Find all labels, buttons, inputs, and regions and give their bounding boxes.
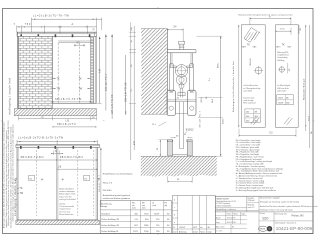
floor slab band upper [15,109,97,116]
svg-text:(mm): (mm) [142,208,146,210]
suspension bolt [178,41,184,49]
glass strip 1 outline [241,25,265,128]
svg-text:126/07: 126/07 [278,97,284,99]
glass strip 1 left dim line [238,25,239,128]
svg-text:Rückansicht / flush pull: Rückansicht / flush pull [303,78,306,100]
hole symbol strip 1 [254,66,263,75]
sill hatch band lower [16,220,100,224]
svg-text:S = Bohrung Übergangsgriff /: S = Bohrung Übergangsgriff / bore hole h… [236,189,277,192]
svg-text:GEZE GmbH: GEZE GmbH [216,198,229,200]
svg-text:Bohrungen für Drehflansche / h: Bohrungen für Drehflansche / handle bar [232,61,235,112]
svg-text:Ausführung: Ausführung [101,202,111,205]
svg-text:864 +: 864 + [218,62,220,68]
logo oval [258,226,267,231]
svg-text:Standard: Standard [101,212,109,215]
svg-text:Name: Name [200,231,205,233]
TK dim strip 2 [276,44,292,47]
svg-text:Perlan 140: Perlan 140 [292,215,305,218]
note text 2 strip 2 [277,84,290,92]
svg-text:and right self shifted: and right self shifted [59,198,76,201]
track rail lower elevation [16,145,100,148]
section wall hatch [141,29,167,115]
svg-text:mit Drehflanschen: mit Drehflanschen [243,84,258,87]
svg-text:TÜ: TÜ [41,116,44,119]
legend list [236,139,283,192]
dim 165 strip 2 [276,28,292,35]
svg-text:Empfehlung / recommendation: Empfehlung / recommendation [103,173,134,176]
svg-text:nach Wahl: nach Wahl [243,90,252,92]
svg-text:Änderung: Änderung [179,230,186,233]
svg-text:Datum: Datum [193,230,199,233]
label einfluegelig single leaf [8,78,12,115]
brick wall [17,32,52,108]
dim text LL upper [33,14,69,17]
right jamb upper [95,36,96,103]
svg-text:1 v. / of 1: 1 v. / of 1 [216,231,223,233]
section right dim column [197,36,225,156]
svg-text:(mm): (mm) [153,205,157,207]
svg-text:b: b [174,214,175,216]
svg-text:Hmax ≤ 5: Hmax ≤ 5 [103,181,113,184]
svg-text:Türschienenmaße: Türschienenmaße [59,205,74,208]
drawing number cell [275,222,313,231]
date name grid [215,210,247,233]
glass symbol strip 2 [284,117,292,125]
svg-text:Gepr.: Gepr. [216,222,220,224]
svg-text:Außen Glasfläche: Außen Glasfläche [59,188,74,191]
svg-text:TK: TK [282,44,285,46]
track fixing bolts upper [20,34,90,37]
note text strip 2 [277,51,289,62]
svg-text:34: 34 [173,27,177,29]
svg-text:Bohrung Ø26: Bohrung Ø26 [277,51,288,54]
company cell [216,198,236,211]
dim LB lower [57,166,97,169]
svg-text:2768-mK: 2768-mK [248,200,256,202]
revision table [172,196,215,234]
handle bar label rotated [232,61,235,112]
svg-text:04.21: 04.21 [193,227,197,229]
svg-text:(mm): (mm) [132,208,136,210]
svg-text:904.5: 904.5 [223,118,225,124]
TK dim strip 1 [241,44,256,47]
svg-text:1245-22: 1245-22 [179,227,185,229]
dim 30 clamp glass [177,97,180,99]
hanger bolt and nut [178,88,185,97]
svg-text:53: 53 [269,133,273,135]
note text strip 1 [243,84,260,92]
hole symbol strip 2 [278,66,285,73]
svg-text:Wz: Wz [208,227,211,229]
svg-text:Zust: Zust [173,230,177,233]
dim line SH upper [105,34,108,110]
right dim lines glass strips [303,25,313,148]
svg-text:pull handle: pull handle [277,90,286,92]
dim SB left half [21,156,45,159]
svg-text:SB=LB/2-TÜ-B/2: SB=LB/2-TÜ-B/2 [60,156,84,159]
dim row TU LB TU [18,116,105,123]
hole dia label strip 1 [250,58,252,66]
svg-text:Hu: Hu [234,218,236,220]
svg-text:15.03.21: 15.03.21 [227,218,233,220]
TU box left lower [15,176,35,181]
glass preparation header [238,13,293,16]
svg-text:Ø26-36: Ø26-36 [250,58,252,66]
svg-text:Kantenschutz: Kantenschutz [243,96,254,99]
dim SB inside opening [52,98,91,102]
hole table strip 2 [277,95,294,105]
svg-text:c: c [174,207,175,209]
svg-text:126/08: 126/08 [278,102,284,104]
svg-text:end-to-end bottom guidance: end-to-end bottom guidance [103,197,131,200]
svg-text:8/10/12: 8/10/12 [186,130,194,132]
svg-text:430: 430 [246,120,249,122]
dim 53 below strips [239,129,296,137]
section left dim column [129,23,136,161]
dim SB right half [17,156,97,160]
svg-text:entsprechend: entsprechend [59,208,70,211]
dim line GH upper [111,34,114,119]
floor hatch band [141,156,217,176]
svg-text:SB=LB-2xTÜ: SB=LB-2xTÜ [57,123,76,126]
corner cutout hatch strip 1 [244,28,261,43]
protection notice lines [260,196,318,211]
label 8 10 12 glass thickness [184,130,194,135]
door leaf edge section upper [91,37,94,103]
svg-text:Weitergabe von Zeichnung, 1 ga: Weitergabe von Zeichnung, 1 gabe von WV … [260,201,299,204]
svg-text:TÜ: TÜ [84,177,87,180]
svg-text:Schutzvermerk / copyright: Schutzvermerk / copyright [260,196,280,199]
disclaimer text column [3,121,15,228]
svg-text:den rest stop: den rest stop [59,210,70,213]
center marks lower panels [41,178,64,180]
svg-text:TK: TK [20,188,23,190]
svg-text:750: 750 [25,23,32,26]
svg-text:Bearb.: Bearb. [216,218,221,220]
panel outline lower [17,148,98,220]
track rail upper elevation [17,32,97,36]
dim line LL upper [32,18,102,33]
dim 20 strip 2 right [299,25,302,34]
svg-text:Urspr.: Urspr. [208,230,213,233]
dim SB below slab [52,123,96,127]
svg-text:330: 330 [246,116,249,118]
S20 cell and logo column [259,212,274,234]
labels TK TW left pair [52,78,61,90]
svg-text:LH: LH [134,141,136,145]
svg-text:für Muschelgriff: für Muschelgriff [277,84,290,87]
svg-text:SH=LH-TÜ-7: SH=LH-TÜ-7 [105,73,108,91]
svg-text:TÜ: TÜ [125,111,128,114]
roller carriage [169,64,193,92]
svg-text:97: 97 [77,43,81,45]
ceiling mount plate [167,50,196,53]
svg-text:SH=LH-TÜ-7: SH=LH-TÜ-7 [198,110,201,127]
dim A glass strips [250,16,291,25]
svg-text:Glasbearbeitungshinweise glas: Glasbearbeitungshinweise glass preparati… [238,13,293,16]
label zweifluegelig double leaf [14,178,17,216]
svg-text:Perlan SoftStop KL: Perlan SoftStop KL [101,230,119,233]
svg-text:SB=LB/2-TÜ-B/2: SB=LB/2-TÜ-B/2 [21,156,45,159]
dim text LL lower [18,137,63,140]
svg-text:TK: TK [79,78,82,80]
svg-text:Urspr.: Urspr. [241,213,246,215]
floor guide channel [167,140,192,156]
svg-text:design: design [101,206,107,208]
glass strip 2 outline [276,25,299,128]
dim 35 strip 2 [288,63,291,74]
tolerance cells [247,198,259,209]
title block outline [215,196,313,233]
svg-text:Hu: Hu [200,227,202,229]
svg-text:GH=LH-TÜ-66: GH=LH-TÜ-66 [125,82,128,102]
svg-text:12: 12 [173,227,175,229]
svg-text:min: min [132,205,135,207]
svg-text:LL=2xLB-3xTÜ-TK-TW: LL=2xLB-3xTÜ-TK-TW [33,14,69,17]
track profile section [170,53,192,68]
labels TK TW lower [17,188,24,195]
dim line GH secondary [125,55,128,115]
svg-text:Bauvd umfassten: Bauvd umfassten [59,213,73,216]
glass clamp [167,90,196,115]
dim 25 channel height [157,140,168,156]
svg-text:10421-EP-80-009: 10421-EP-80-009 [276,226,313,231]
dim 34 section top [167,27,183,42]
svg-text:TK: TK [57,78,60,80]
svg-text:Perlan SoftStop VR: Perlan SoftStop VR [101,218,119,221]
svg-text:SB=LB-TÜ-TK-TW: SB=LB-TÜ-TK-TW [55,98,82,101]
track fixing bolts lower [20,146,92,149]
svg-text:or Öffnungsbeschlag: or Öffnungsbeschlag [243,87,260,90]
TU box right lower [84,176,101,181]
dim lines right of lower elevation [98,148,101,208]
svg-text:EPD / polished: EPD / polished [243,103,255,105]
svg-text:SH=LH-TÜ-7: SH=LH-TÜ-7 [98,174,101,192]
svg-text:GEZE: GEZE [260,229,266,231]
dim 97 [75,43,85,47]
svg-text:Perlan SoftStop VR: Perlan SoftStop VR [101,224,119,227]
svg-text:230: 230 [246,111,249,113]
svg-text:Außen abgeh. hefte: Außen abgeh. hefte [59,193,75,196]
svg-text:rund of edge: rund of edge [243,99,253,102]
svg-text:TK: TK [247,44,250,46]
svg-text:Verwendung: Verwendung [277,56,287,59]
svg-text:(kg): (kg) [164,205,167,207]
svg-text:max: max [142,205,145,207]
door travel dashed lines upper [58,43,79,103]
dim B center [51,151,63,155]
svg-text:SoftStop: SoftStop [277,59,284,62]
dim row Y 750 A upper [14,23,97,33]
glass symbol strip 1 [251,117,259,125]
svg-text:LB: LB [58,166,62,168]
svg-text:einflügelig / single leaf: einflügelig / single leaf [8,78,12,115]
svg-text:a: a [174,222,175,224]
svg-text:S20: S20 [262,217,268,221]
product name cell [274,213,313,221]
dim line LH upper [97,37,101,104]
svg-text:GH=LH-TÜ-66: GH=LH-TÜ-66 [111,94,114,114]
svg-text:Normteilhaus / conference: Normteilhaus / conference [216,208,236,211]
hole table strip 1 [245,109,261,123]
svg-text:Bodenführung durchgehend: Bodenführung durchgehend [103,194,131,197]
svg-text:LB: LB [66,120,70,122]
labels TK TW right pair [79,78,91,90]
dim 30 channel opening [171,135,193,138]
svg-text:(2): (2) [92,29,95,31]
approval stamp [267,226,272,231]
svg-text:TÜ: TÜ [29,177,32,180]
svg-text:oberste: oberste [59,203,65,206]
svg-text:16.03.21: 16.03.21 [227,222,233,224]
svg-text:(25.5): (25.5) [201,97,203,103]
door travel dashed lines lower [37,150,94,216]
note block inside right panel 1 [59,188,76,201]
recommendation notes [103,173,134,200]
svg-text:Ø40: Ø40 [286,102,289,104]
door opening upper [52,41,96,103]
svg-text:Name: Name [234,213,238,215]
svg-text:(40): (40) [131,27,133,31]
glass pane section [180,102,184,149]
svg-text:38-97: 38-97 [154,213,160,215]
svg-text:Wz: Wz [234,222,237,224]
svg-text:scale 1:2: scale 1:2 [248,207,255,209]
svg-text:904.5: 904.5 [309,115,311,121]
dim 12 clamp side [152,122,166,126]
svg-text:Telefon 07152/203-0: Telefon 07152/203-0 [216,205,231,207]
svg-text:Ø10: Ø10 [255,116,259,118]
svg-text:Ø8: Ø8 [286,97,288,99]
svg-text:Ø8: Ø8 [255,111,258,113]
svg-text:LL=2xLB-2xTÜ-B-2xTK-2xTW: LL=2xLB-2xTÜ-B-2xTK-2xTW [18,137,63,140]
svg-text:d: d [174,199,175,201]
svg-text:TÜ: TÜ [92,116,95,119]
dim line LL lower [17,140,97,145]
note block inside right panel 2 [59,203,74,216]
svg-text:vorderst anbringen;: vorderst anbringen; [59,190,75,193]
svg-text:help on the left: help on the left [59,195,72,198]
svg-text:165: 165 [280,28,286,30]
note text 2 strip 1 [243,96,255,104]
dim 30 below floor [168,176,193,182]
svg-text:PB-1000: PB-1000 [103,190,112,192]
svg-text:TÜ: TÜ [130,89,133,92]
svg-text:LH: LH [100,69,102,73]
design table [100,201,171,234]
